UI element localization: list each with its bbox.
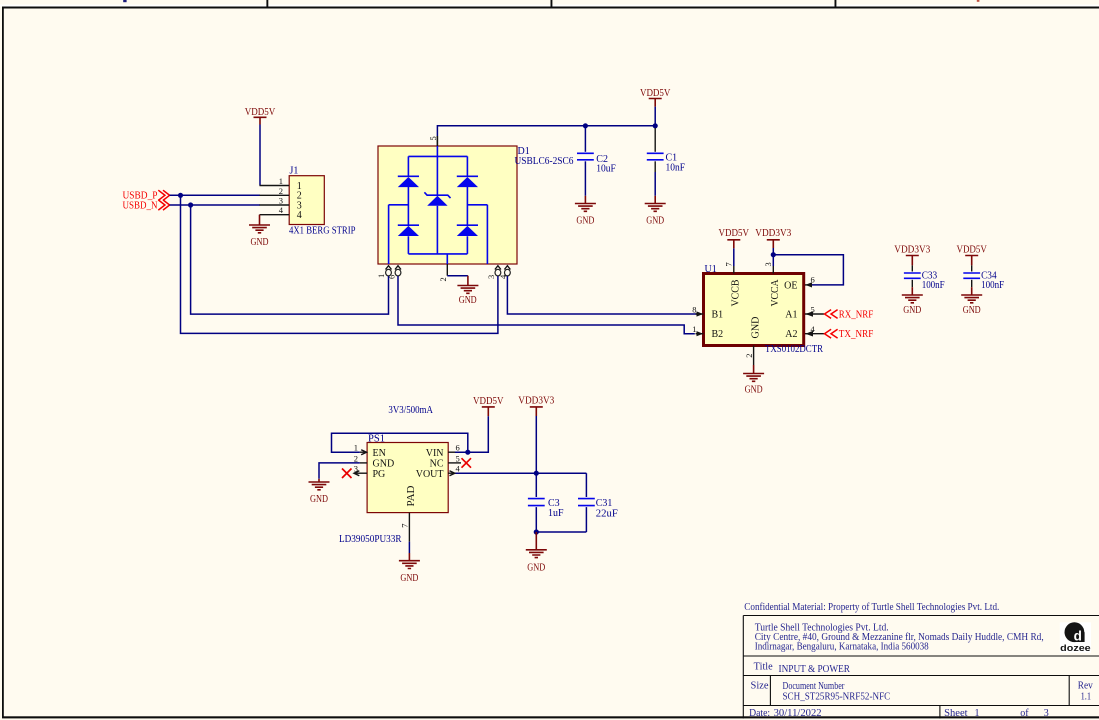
- svg-text:6: 6: [811, 274, 815, 284]
- svg-text:2: 2: [744, 354, 754, 358]
- svg-text:GND: GND: [963, 305, 981, 316]
- capacitor C3: [528, 473, 564, 532]
- J1 pin 1: [260, 185, 290, 187]
- frame bottom line: [2, 716, 1099, 718]
- junction VDD3V3/OE: [771, 252, 776, 257]
- wire VDD5V to J1 pin1: [259, 125, 261, 186]
- svg-text:USBD_N: USBD_N: [123, 200, 158, 211]
- svg-text:4: 4: [297, 210, 302, 221]
- ground (C1): [645, 204, 666, 227]
- off-page connector USBD_N: [123, 200, 170, 212]
- svg-text:GND: GND: [310, 494, 328, 505]
- ground (D1): [457, 286, 478, 307]
- wire EN tied to VIN (loop): [332, 433, 468, 452]
- diode D1-c (bottom left): [398, 225, 419, 236]
- wire VDD5V to C1 junction: [654, 107, 656, 126]
- svg-text:OE: OE: [784, 280, 797, 291]
- off-page connector USBD_P: [123, 190, 170, 201]
- svg-text:3: 3: [1044, 708, 1049, 719]
- PS1 pin 5 NC: [430, 453, 461, 469]
- svg-text:5: 5: [456, 453, 460, 463]
- wire PAD pin to ground: [408, 542, 410, 553]
- svg-text:1: 1: [692, 324, 696, 334]
- frame top line: [2, 7, 1099, 9]
- svg-text:VCCB: VCCB: [731, 279, 742, 306]
- ground (C34): [961, 295, 982, 316]
- junction USBD_N: [188, 202, 193, 207]
- ground (C3/C31): [526, 550, 547, 574]
- power symbol VDD5V (above U1): [719, 228, 750, 249]
- J1 pin 4: [260, 214, 290, 216]
- PS1 pin3 no-connect X: [342, 469, 352, 479]
- svg-text:2: 2: [354, 453, 358, 463]
- cropped glyph remnant blue: [123, 0, 126, 2]
- PS1 pin 2 GND: [354, 453, 394, 469]
- junction C3/C31 ground node: [534, 529, 539, 534]
- power symbol VDD5V (above C34): [956, 244, 987, 265]
- frame left line: [2, 7, 4, 718]
- svg-text:dozee: dozee: [1060, 643, 1091, 654]
- wire node to ground: [535, 532, 537, 550]
- diode D1-b (top right): [457, 176, 478, 187]
- svg-text:d: d: [1074, 629, 1082, 644]
- svg-text:3: 3: [486, 275, 496, 279]
- svg-text:of: of: [1020, 708, 1029, 719]
- svg-text:GND: GND: [251, 237, 269, 248]
- svg-text:Indirnagar, Bengaluru, Karnata: Indirnagar, Bengaluru, Karnataka, India …: [755, 642, 929, 653]
- svg-text:TX_NRF: TX_NRF: [839, 329, 874, 340]
- power symbol VDD5V (above C1): [640, 88, 671, 107]
- power symbol VDD3V3 (above C33): [894, 244, 930, 265]
- junction VIN/EN: [465, 450, 470, 455]
- svg-text:2: 2: [438, 277, 448, 281]
- title block divider rev column: [1068, 676, 1070, 706]
- junction at C2: [583, 123, 588, 128]
- svg-text:3: 3: [279, 196, 283, 206]
- U1 pin 7 VCCB: [724, 262, 742, 306]
- wire D1 pin6 to U1 B2: [398, 276, 695, 334]
- power symbol VDD3V3 (above U1): [755, 228, 791, 248]
- svg-text:GND: GND: [459, 295, 477, 306]
- capacitor C1: [647, 128, 686, 204]
- svg-text:GND: GND: [400, 573, 418, 584]
- title block divider size column: [769, 676, 771, 706]
- svg-text:U1: U1: [705, 264, 717, 275]
- power symbol VDD5V (above J1): [245, 107, 276, 125]
- U1 pin 3 VCCA: [763, 262, 781, 306]
- connector J1 body: [289, 176, 324, 225]
- svg-text:VCCA: VCCA: [770, 279, 781, 307]
- svg-text:SCH_ST25R95-NRF52-NFC: SCH_ST25R95-NRF52-NFC: [783, 691, 891, 702]
- wire USBD_N down and to D1 pin1: [191, 205, 389, 314]
- wire D1 pin4 to U1 B1: [507, 276, 698, 314]
- svg-text:VOUT: VOUT: [416, 469, 444, 480]
- svg-text:J1: J1: [290, 166, 299, 177]
- wire VDD3V3 to U1 pin3: [772, 248, 774, 266]
- D1 pin 5 (top): [428, 136, 438, 146]
- svg-text:VDD3V3: VDD3V3: [755, 228, 791, 239]
- svg-text:PG: PG: [373, 469, 386, 480]
- junction USBD_P: [178, 193, 183, 198]
- svg-text:7: 7: [399, 524, 409, 528]
- cropped glyph remnant red: [977, 0, 980, 2]
- svg-text:B2: B2: [712, 329, 724, 340]
- level shifter U1 body: [704, 274, 804, 346]
- ground (C33): [902, 295, 923, 316]
- svg-text:10uF: 10uF: [596, 164, 616, 175]
- power symbol VDD5V (above PS1): [473, 396, 504, 416]
- svg-text:INPUT & POWER: INPUT & POWER: [779, 664, 851, 675]
- junction at C1: [653, 123, 658, 128]
- off-page connector TX_NRF: [825, 329, 874, 340]
- frame tick 2: [551, 0, 553, 7]
- svg-text:3V3/500mA: 3V3/500mA: [388, 405, 433, 416]
- svg-text:5: 5: [811, 304, 815, 314]
- U1 pin 6 OE: [784, 274, 815, 291]
- svg-text:1uF: 1uF: [548, 508, 564, 519]
- svg-text:PS1: PS1: [368, 434, 385, 445]
- wire VDD5V to U1 pin7: [733, 248, 735, 266]
- PS1 pin5 no-connect X: [462, 458, 472, 468]
- wire VDD3V3 to OE pin: [773, 255, 843, 285]
- D1 pin 4: [498, 266, 511, 279]
- ground (J1): [249, 225, 270, 248]
- wire USBD_P to J1 pin2: [170, 194, 260, 196]
- svg-text:Title: Title: [754, 661, 774, 672]
- svg-text:VIN: VIN: [426, 448, 444, 459]
- PS1 pin 1 EN: [354, 443, 386, 459]
- zener diode D1-z (center): [424, 192, 450, 206]
- svg-text:VDD5V: VDD5V: [473, 396, 504, 407]
- J1 pin 2: [260, 194, 290, 196]
- title block outer box: [743, 616, 1099, 719]
- svg-text:VDD3V3: VDD3V3: [894, 244, 930, 255]
- svg-text:B1: B1: [712, 310, 724, 321]
- U1 pin 8 B1: [692, 304, 723, 320]
- wire VDD3V3 down through C3: [535, 416, 537, 473]
- svg-text:EN: EN: [373, 448, 386, 459]
- svg-text:GND: GND: [903, 305, 921, 316]
- U1 pin 1 B2: [692, 324, 723, 340]
- wire VDD5V to VIN: [455, 416, 488, 452]
- wire C31 bottom to C3 bottom: [536, 531, 586, 533]
- PS1 pin 7 PAD: [399, 486, 417, 542]
- svg-text:3: 3: [354, 464, 358, 474]
- wire VOUT to VDD3V3 rail: [456, 472, 587, 474]
- wire USBD_N to J1 pin3: [170, 204, 260, 206]
- svg-text:LD39050PU33R: LD39050PU33R: [339, 534, 402, 545]
- svg-text:A1: A1: [785, 310, 797, 321]
- svg-text:VDD5V: VDD5V: [245, 107, 276, 118]
- svg-text:USBLC6-2SC6: USBLC6-2SC6: [515, 156, 574, 167]
- title block divider sheet column: [939, 706, 941, 719]
- svg-text:VDD3V3: VDD3V3: [518, 396, 554, 407]
- D1 pin 2: [438, 264, 448, 282]
- frame tick 3: [835, 0, 837, 7]
- svg-text:100nF: 100nF: [981, 280, 1004, 291]
- U1 pin 4 A2: [785, 324, 824, 340]
- svg-text:1.1: 1.1: [1081, 691, 1092, 702]
- svg-text:2: 2: [279, 186, 283, 196]
- wire USBD_P down and to D1 pin3: [181, 195, 498, 333]
- PS1 pin 6 VIN: [426, 443, 460, 459]
- svg-text:RX_NRF: RX_NRF: [839, 309, 874, 320]
- D1 internal wiring: [389, 146, 488, 264]
- dozee logo: [1060, 622, 1091, 654]
- D1 pin 6: [387, 266, 401, 279]
- svg-text:6: 6: [456, 443, 460, 453]
- svg-text:Size: Size: [751, 680, 770, 691]
- off-page connector RX_NRF: [825, 309, 874, 320]
- svg-text:7: 7: [724, 262, 734, 266]
- regulator PS1 body: [367, 443, 448, 513]
- junction VOUT/VDD3V3: [534, 471, 539, 476]
- capacitor C33: [904, 265, 945, 295]
- D1 pin 3: [486, 266, 501, 279]
- svg-text:GND: GND: [745, 385, 763, 396]
- svg-text:Rev: Rev: [1078, 680, 1093, 691]
- svg-text:GND: GND: [576, 216, 594, 227]
- ground (C2): [575, 204, 596, 227]
- svg-text:VDD5V: VDD5V: [640, 88, 671, 99]
- capacitor C34: [963, 265, 1004, 295]
- J1 pin 3: [260, 204, 290, 206]
- svg-text:C31: C31: [596, 498, 613, 509]
- wire J1 pin4 to ground: [259, 215, 261, 225]
- svg-text:VDD5V: VDD5V: [719, 228, 750, 239]
- wire D1 pin5 to capacitors: [437, 126, 655, 146]
- svg-text:5: 5: [428, 136, 438, 140]
- ESD array D1 body: [378, 146, 517, 264]
- ground (PS1 pin2): [309, 482, 330, 505]
- svg-text:Document Number: Document Number: [783, 681, 846, 692]
- svg-text:Confidential Material: Propert: Confidential Material: Property of Turtl…: [744, 602, 999, 613]
- ground (PS1 PAD): [399, 561, 420, 584]
- svg-text:GND: GND: [750, 317, 761, 339]
- PS1 pin 3 PG: [354, 464, 386, 480]
- svg-text:30/11/2022: 30/11/2022: [774, 708, 822, 719]
- svg-text:VDD5V: VDD5V: [956, 244, 987, 255]
- svg-text:100nF: 100nF: [922, 280, 945, 291]
- svg-text:A2: A2: [785, 329, 797, 340]
- svg-text:22uF: 22uF: [596, 508, 618, 519]
- svg-text:4X1 BERG STRIP: 4X1 BERG STRIP: [289, 226, 356, 237]
- svg-text:Sheet: Sheet: [944, 708, 968, 719]
- wire PS1 pin2 to ground: [319, 463, 360, 479]
- svg-text:1: 1: [279, 176, 283, 186]
- U1 pin 2 GND: [744, 317, 762, 366]
- svg-text:Date:: Date:: [749, 708, 770, 719]
- svg-text:1: 1: [376, 274, 386, 278]
- PS1 pin 4 VOUT: [416, 464, 461, 480]
- diode D1-a (top left): [398, 176, 419, 187]
- capacitor C2: [577, 126, 616, 204]
- svg-text:10nF: 10nF: [666, 162, 686, 173]
- svg-text:GND: GND: [646, 216, 664, 227]
- svg-text:1: 1: [354, 443, 358, 453]
- power symbol VDD3V3 (above C3): [518, 396, 554, 416]
- svg-text:3: 3: [763, 262, 773, 266]
- svg-text:TXS0102DCTR: TXS0102DCTR: [765, 344, 823, 355]
- svg-text:8: 8: [692, 304, 696, 314]
- svg-text:GND: GND: [527, 562, 545, 573]
- svg-text:PAD: PAD: [406, 486, 417, 507]
- diode D1-d (bottom right): [457, 225, 478, 236]
- D1 pin 1: [376, 266, 391, 278]
- wire U1 pin2 to ground: [753, 365, 755, 374]
- wire D1 pin2 to ground: [447, 275, 468, 277]
- ground (U1): [743, 374, 764, 396]
- capacitor C31: [578, 473, 618, 532]
- U1 pin 5 A1: [785, 304, 824, 320]
- frame tick 1: [266, 0, 268, 7]
- svg-text:1: 1: [975, 708, 980, 719]
